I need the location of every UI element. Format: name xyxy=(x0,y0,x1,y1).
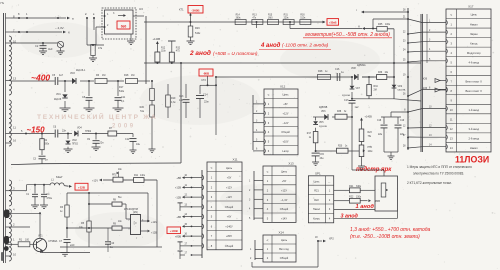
svg-text:–12У: –12У xyxy=(226,195,232,199)
svg-text:4н7: 4н7 xyxy=(59,74,64,77)
svg-text:С11: С11 xyxy=(121,96,126,99)
svg-text:Х13: Х13 xyxy=(288,162,294,166)
svg-text:+12У: +12У xyxy=(226,185,232,189)
svg-text:Х11: Х11 xyxy=(232,158,237,162)
svg-text:+140В: +140В xyxy=(170,229,178,233)
svg-text:+10У: +10У xyxy=(282,140,288,144)
svg-text:С14: С14 xyxy=(203,94,208,97)
svg-text:С12: С12 xyxy=(125,138,130,141)
svg-text:Векл пласт X: Векл пласт X xyxy=(466,89,483,93)
svg-text:КР140УД708: КР140УД708 xyxy=(124,208,139,211)
svg-text:43н: 43н xyxy=(320,157,325,160)
svg-text:КД509А: КД509А xyxy=(398,89,406,92)
svg-text:1,3 анод: +550...+700 отн. кат: 1,3 анод: +550...+700 отн. катода xyxy=(350,227,431,233)
svg-text:геометрия(+50...-50В отн. 2 ан: геометрия(+50...-50В отн. 2 анода) xyxy=(305,32,390,38)
svg-text:2-й анод: 2-й анод xyxy=(468,137,479,141)
svg-text:Цепь: Цепь xyxy=(281,170,288,174)
svg-text:3-й анод: 3-й анод xyxy=(468,127,479,131)
svg-text:10: 10 xyxy=(13,253,17,257)
svg-text:+12В: +12В xyxy=(175,186,181,190)
svg-text:R17: R17 xyxy=(119,86,124,89)
svg-text:Модулятор: Модулятор xyxy=(467,51,481,55)
svg-text:Х12: Х12 xyxy=(280,85,286,89)
svg-text:SP1: SP1 xyxy=(315,171,321,175)
svg-text:+12V: +12V xyxy=(151,221,157,224)
svg-text:1М: 1М xyxy=(102,74,105,77)
svg-text:+80В: +80В xyxy=(175,234,181,238)
svg-text:–1,3У: –1,3У xyxy=(281,198,288,202)
svg-text:+140У: +140У xyxy=(225,224,233,228)
svg-text:Общий: Общий xyxy=(225,205,234,209)
svg-text:Накал: Накал xyxy=(470,146,478,150)
svg-text:+12V: +12V xyxy=(92,180,98,183)
svg-text:электричества по ТУ 25000.0008: электричества по ТУ 25000.00083. xyxy=(413,172,464,176)
svg-text:Цепь: Цепь xyxy=(282,93,289,97)
svg-text:2М: 2М xyxy=(374,90,377,92)
svg-text:R19: R19 xyxy=(171,97,176,100)
svg-text:Общий: Общий xyxy=(280,256,289,260)
svg-text:R31: R31 xyxy=(284,15,289,17)
svg-text:VD2: VD2 xyxy=(72,139,77,142)
svg-text:11ЛОЗИ: 11ЛОЗИ xyxy=(455,155,489,165)
svg-text:<: < xyxy=(267,170,269,174)
svg-text:Цепь: Цепь xyxy=(281,238,288,242)
svg-text:КД509А: КД509А xyxy=(342,94,350,97)
svg-text:–12У: –12У xyxy=(283,121,289,125)
svg-text:16: 16 xyxy=(13,139,17,143)
svg-text:2 КТ1,КТ2-контрольные точки.: 2 КТ1,КТ2-контрольные точки. xyxy=(407,181,452,185)
svg-text:470м: 470м xyxy=(47,198,53,200)
svg-text:КД509В: КД509В xyxy=(319,107,328,109)
svg-text:1М0: 1М0 xyxy=(268,18,273,20)
svg-text:Цепь: Цепь xyxy=(471,13,478,17)
svg-text:3н0: 3н0 xyxy=(48,47,53,51)
svg-text:R35: R35 xyxy=(378,23,383,26)
svg-text:R21: R21 xyxy=(349,185,354,188)
svg-text:←: ← xyxy=(328,180,331,184)
svg-text:г: г xyxy=(356,8,357,12)
svg-text:С2: С2 xyxy=(35,44,39,48)
svg-text:2009: 2009 xyxy=(112,124,136,130)
svg-text:R17: R17 xyxy=(307,133,312,135)
svg-text:(т.е. -250...-100В отн. земли): (т.е. -250...-100В отн. земли) xyxy=(350,234,420,240)
svg-text:R30: R30 xyxy=(300,15,305,17)
svg-text:22м: 22м xyxy=(378,134,383,136)
svg-text:63мкГ: 63мкГ xyxy=(56,176,63,179)
svg-text:U3: U3 xyxy=(139,7,143,11)
svg-text:VD7: VD7 xyxy=(356,88,361,90)
svg-text:R22: R22 xyxy=(314,199,319,202)
svg-text:R13: R13 xyxy=(252,15,257,17)
svg-text:Конус: Конус xyxy=(313,218,320,221)
svg-text:22н: 22н xyxy=(100,142,105,145)
svg-text:Экран: Экран xyxy=(470,32,478,36)
svg-text:Пч: Пч xyxy=(1,1,5,5)
svg-text:0в0: 0в0 xyxy=(121,24,127,28)
svg-text:ХР2: ХР2 xyxy=(329,238,334,241)
svg-text:Х17: Х17 xyxy=(468,5,474,9)
svg-text:Общий: Общий xyxy=(280,207,289,211)
svg-text:R21: R21 xyxy=(314,189,319,192)
svg-text:<: < xyxy=(267,238,269,242)
svg-text:б: б xyxy=(68,31,70,35)
svg-text:VD3: VD3 xyxy=(70,72,75,75)
svg-text:R23: R23 xyxy=(368,132,373,134)
svg-text:+5В: +5В xyxy=(176,176,181,180)
svg-text:+12У: +12У xyxy=(281,188,287,192)
svg-text:ПП02: ПП02 xyxy=(72,144,79,146)
svg-text:4-й анод: 4-й анод xyxy=(468,60,479,64)
svg-text:<: < xyxy=(211,166,213,170)
svg-text:Вкл.под: Вкл.под xyxy=(279,247,289,251)
svg-text:R18: R18 xyxy=(124,74,129,77)
svg-text:КД509В: КД509В xyxy=(319,126,327,128)
svg-text:+14У: +14У xyxy=(281,217,287,221)
svg-text:<: < xyxy=(450,13,452,17)
svg-text:R29: R29 xyxy=(195,27,200,30)
svg-text:R20: R20 xyxy=(338,146,343,148)
svg-text:– 4,3V: – 4,3V xyxy=(55,26,64,30)
svg-text:+35кВ: +35кВ xyxy=(329,21,337,25)
svg-text:Lamp: Lamp xyxy=(282,149,289,153)
svg-text:R14: R14 xyxy=(236,15,241,17)
svg-text:10н: 10н xyxy=(136,143,141,146)
svg-text:+12В: +12В xyxy=(78,186,85,190)
svg-text:-80В: -80В xyxy=(203,71,209,75)
svg-text:VD5: VD5 xyxy=(319,122,324,124)
svg-text:С10: С10 xyxy=(110,243,115,245)
svg-text:(-110В отн. 2 анода): (-110В отн. 2 анода) xyxy=(282,43,329,49)
svg-text:VD6: VD6 xyxy=(321,111,326,113)
svg-text:+140В: +140В xyxy=(365,116,373,119)
svg-text:1-й анод: 1-й анод xyxy=(468,108,479,112)
svg-text:+12У: +12У xyxy=(282,111,288,115)
svg-text:R22: R22 xyxy=(349,196,354,199)
svg-text:R28: R28 xyxy=(318,70,323,73)
svg-text:R12: R12 xyxy=(161,48,166,50)
svg-text:Х14: Х14 xyxy=(278,231,284,235)
svg-text:+6В: +6В xyxy=(176,215,181,219)
svg-text:Накал: Накал xyxy=(470,22,478,26)
svg-text:(+50В = U пластин): (+50В = U пластин) xyxy=(213,51,258,57)
svg-text:VT1: VT1 xyxy=(38,235,43,238)
svg-text:–12В: –12В xyxy=(175,195,181,199)
svg-text:100: 100 xyxy=(25,239,30,242)
svg-text:510к: 510к xyxy=(195,32,201,35)
svg-text:Общий: Общий xyxy=(281,130,290,134)
svg-text:Векл пласт X: Векл пласт X xyxy=(466,79,483,83)
svg-text:+12В: +12В xyxy=(151,232,157,235)
svg-text:С18: С18 xyxy=(377,120,382,122)
svg-text:+80У: +80У xyxy=(226,234,232,238)
svg-text:R15: R15 xyxy=(268,15,273,17)
svg-text:VD1: VD1 xyxy=(56,93,61,96)
svg-text:+140В: +140В xyxy=(153,37,161,41)
svg-text:1М: 1М xyxy=(131,74,134,77)
svg-text:КТ969А: КТ969А xyxy=(49,240,58,243)
svg-text:+5У: +5У xyxy=(227,176,232,180)
svg-text:3 анод: 3 анод xyxy=(341,213,359,219)
svg-text:Цепь: Цепь xyxy=(226,166,233,170)
svg-text:R36: R36 xyxy=(378,72,383,74)
svg-text:4 анод: 4 анод xyxy=(260,43,281,49)
svg-text:С15: С15 xyxy=(320,153,325,156)
svg-text:К36: К36 xyxy=(423,87,428,90)
svg-text:С19: С19 xyxy=(400,120,405,122)
svg-text:R34: R34 xyxy=(374,86,379,88)
svg-text:С13: С13 xyxy=(179,95,184,98)
svg-text:+5У: +5У xyxy=(283,102,288,106)
svg-text:+5У: +5У xyxy=(282,179,287,183)
svg-text:РП1: РП1 xyxy=(112,175,117,177)
svg-text:R38: R38 xyxy=(337,111,342,113)
svg-text:ТЕХНИЧЕСКИЙ ЦЕНТР ЖА: ТЕХНИЧЕСКИЙ ЦЕНТР ЖА xyxy=(37,112,157,121)
svg-text:КТ1: КТ1 xyxy=(179,8,184,12)
svg-text:С17: С17 xyxy=(344,99,349,102)
svg-text:С16: С16 xyxy=(335,68,340,71)
svg-text:VD9: VD9 xyxy=(398,86,403,88)
svg-text:11: 11 xyxy=(13,126,16,130)
svg-text:R20: R20 xyxy=(140,106,145,109)
svg-text:R32: R32 xyxy=(176,48,181,50)
svg-text:VD8: VD8 xyxy=(351,67,356,70)
svg-text:Цепь: Цепь xyxy=(314,180,321,183)
svg-text:К36: К36 xyxy=(423,78,428,81)
svg-text:Накал: Накал xyxy=(313,208,321,211)
svg-text:Общий: Общий xyxy=(225,244,234,248)
svg-text:2 анод: 2 анод xyxy=(189,49,211,57)
svg-text:22н: 22н xyxy=(62,130,67,133)
svg-text:13: 13 xyxy=(13,77,17,81)
svg-text:-360В: -360В xyxy=(191,8,200,12)
svg-text:ПП02: ПП02 xyxy=(85,130,92,133)
svg-text:1н2: 1н2 xyxy=(355,106,360,109)
svg-text:VD4: VD4 xyxy=(77,127,82,130)
svg-text:1 анод: 1 анод xyxy=(356,204,375,210)
svg-text:м10: м10 xyxy=(70,244,75,247)
svg-text:РП5: РП5 xyxy=(368,147,373,149)
svg-text:КД509А: КД509А xyxy=(357,64,366,67)
svg-text:1 Меры защиты ИГС и ППП от ста: 1 Меры защиты ИГС и ППП от статического xyxy=(407,165,472,169)
svg-text:(М1): (М1) xyxy=(133,211,138,214)
svg-text:22м: 22м xyxy=(204,101,209,104)
svg-text:КТ2: КТ2 xyxy=(202,79,207,82)
svg-text:+6У: +6У xyxy=(227,215,232,219)
svg-text:КЦ106-1: КЦ106-1 xyxy=(76,69,86,72)
svg-text:<: < xyxy=(268,93,270,97)
svg-text:Катод: Катод xyxy=(470,41,478,45)
svg-text:КЦ106: КЦ106 xyxy=(54,98,62,101)
